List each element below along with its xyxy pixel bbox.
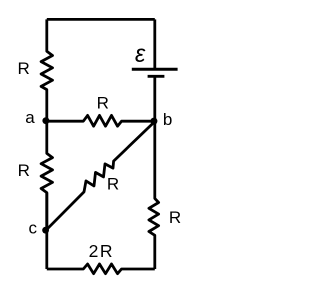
node b	[150, 118, 157, 125]
svg-text:b: b	[163, 110, 172, 129]
resistor R4 diagonal c to b	[46, 122, 155, 231]
svg-text:R: R	[18, 59, 30, 78]
resistor R3 between a and c	[41, 121, 52, 230]
svg-text:R: R	[97, 94, 109, 113]
svg-text:c: c	[29, 218, 38, 237]
node c	[42, 227, 49, 234]
resistor 2R bottom	[47, 264, 155, 274]
svg-text:R: R	[18, 161, 30, 180]
svg-text:R: R	[107, 175, 119, 194]
svg-text:a: a	[25, 108, 35, 127]
resistor R5 right side	[149, 121, 159, 269]
node a	[42, 117, 49, 124]
resistor R2 between a and b	[47, 115, 155, 126]
svg-text:R: R	[169, 208, 181, 227]
svg-text:2R: 2R	[89, 241, 115, 261]
battery EMF source	[132, 69, 178, 76]
resistor R1 top-left	[41, 19, 52, 121]
wire right top (to battery)	[153, 19, 156, 68]
wire left (a to c segment junction continuity)	[45, 193, 48, 269]
wire right battery to node b	[153, 76, 156, 121]
svg-text:ε: ε	[135, 40, 146, 68]
wire top	[47, 18, 155, 21]
